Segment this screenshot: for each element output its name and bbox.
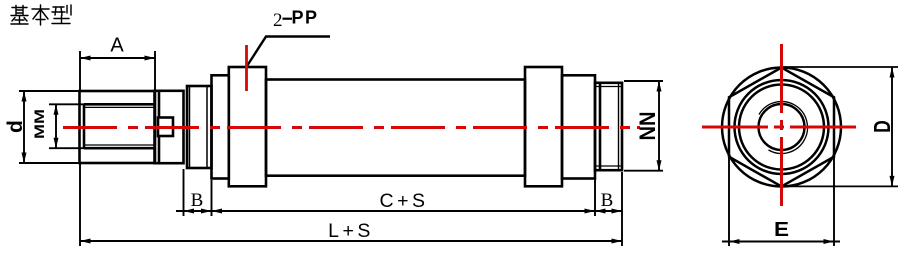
svg-text:A: A [110,35,124,57]
svg-text:B: B [601,190,614,211]
svg-text:2: 2 [273,10,283,31]
svg-text:D: D [869,120,895,133]
svg-text:B: B [191,190,204,211]
svg-text:MM: MM [31,109,47,139]
svg-text:PP: PP [292,8,319,28]
svg-text:d: d [4,120,27,133]
svg-text:L+S: L+S [328,220,374,242]
svg-text:C+S: C+S [380,190,429,212]
svg-text:NN: NN [635,112,660,141]
svg-text:E: E [774,219,789,241]
